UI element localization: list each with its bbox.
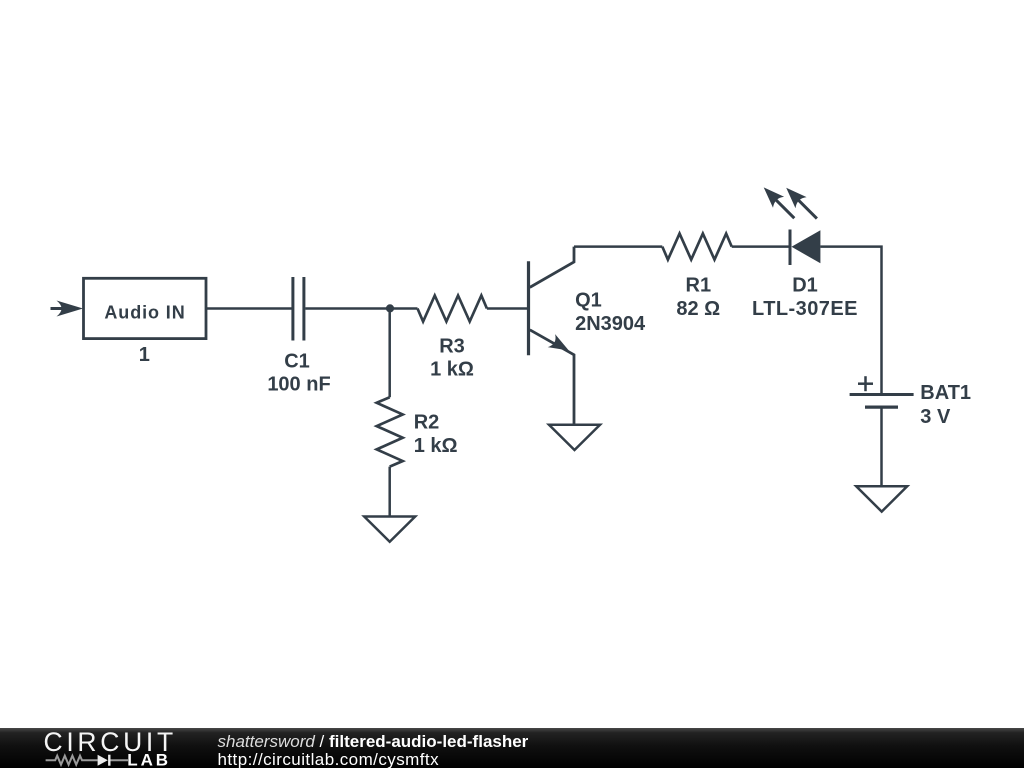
ground (emitter) xyxy=(549,425,600,450)
voltage source V1 Audio IN box xyxy=(84,278,207,338)
battery BAT1 plus sign xyxy=(858,382,873,385)
svg-text:Audio IN: Audio IN xyxy=(104,302,185,322)
LED D1 emission arrow 1 shaft xyxy=(776,199,795,218)
wire D1 to battery xyxy=(820,247,881,394)
svg-text:BAT1: BAT1 xyxy=(920,382,971,404)
svg-text:LTL-307EE: LTL-307EE xyxy=(752,298,858,320)
capacitor C1 right plate xyxy=(302,277,305,341)
input terminal wire xyxy=(51,307,64,310)
ground (R2) xyxy=(364,517,415,542)
svg-text:100 nF: 100 nF xyxy=(267,373,330,395)
svg-text:2N3904: 2N3904 xyxy=(575,313,646,335)
svg-text:82 Ω: 82 Ω xyxy=(676,298,720,320)
transistor Q1 emitter xyxy=(530,330,574,425)
footer text xyxy=(218,733,529,768)
wire R2 to ground xyxy=(388,467,391,517)
wire battery to ground xyxy=(880,407,883,486)
LED D1 cathode bar xyxy=(789,230,792,266)
svg-text:3 V: 3 V xyxy=(920,406,951,428)
svg-text:C1: C1 xyxy=(284,351,310,373)
svg-text:R1: R1 xyxy=(686,274,712,296)
LED D1 emission arrow 2 head xyxy=(786,188,806,208)
LED D1 triangle xyxy=(792,230,821,263)
wire R3 to base xyxy=(487,307,527,310)
wire collector to R1 xyxy=(574,245,662,248)
svg-text:1: 1 xyxy=(139,344,150,366)
node junction xyxy=(386,304,394,312)
wire C1 to node xyxy=(305,307,417,310)
capacitor C1 left plate xyxy=(291,277,294,341)
wire R1 to D1 xyxy=(732,245,790,248)
wire box to C1 xyxy=(207,307,292,310)
LED D1 emission arrow 1 head xyxy=(764,187,784,207)
battery BAT1 negative plate xyxy=(865,406,898,409)
transistor Q1 collector xyxy=(530,247,574,288)
transistor Q1 base bar xyxy=(527,261,530,355)
CircuitLab logo xyxy=(0,728,220,768)
svg-text:R3: R3 xyxy=(439,335,465,357)
resistor R3 xyxy=(418,296,487,322)
svg-text:1 kΩ: 1 kΩ xyxy=(414,435,458,457)
svg-text:LAB: LAB xyxy=(127,750,171,768)
svg-text:1 kΩ: 1 kΩ xyxy=(430,359,474,381)
LED D1 emission arrow 2 shaft xyxy=(798,200,817,219)
resistor R2 xyxy=(377,397,403,466)
svg-text:D1: D1 xyxy=(792,274,818,296)
svg-text:Q1: Q1 xyxy=(575,289,602,311)
resistor R1 xyxy=(662,234,731,260)
ground (battery) xyxy=(856,486,907,511)
transistor Q1 emitter arrowhead xyxy=(548,334,569,350)
svg-text:R2: R2 xyxy=(414,411,440,433)
battery BAT1 positive plate xyxy=(850,393,914,396)
input terminal arrowhead xyxy=(57,301,84,317)
footer watermark bar xyxy=(0,728,1024,768)
wire node to R2 xyxy=(388,309,391,398)
